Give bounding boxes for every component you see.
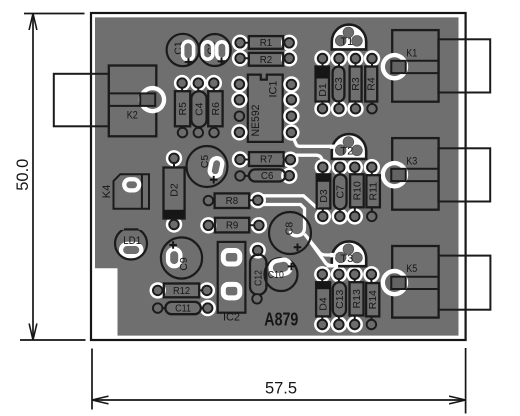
svg-text:C13: C13 [334,290,346,309]
svg-text:57.5: 57.5 [265,379,297,397]
resistor R11 [364,159,380,175]
svg-text:C12: C12 [252,270,264,286]
relay K1 [392,30,438,102]
diode D2 [166,150,182,166]
resistor R3 [347,50,363,66]
svg-text:R3: R3 [350,77,362,91]
svg-text:C6: C6 [261,170,274,182]
diode D1 [314,50,330,66]
wire trace patch T3 entry [330,253,335,257]
svg-text:T1: T1 [340,36,353,48]
svg-text:IC1: IC1 [267,81,279,98]
capacitor C4 [190,75,206,91]
capacitor C6 [281,168,297,184]
svg-text:K3: K3 [406,155,417,167]
board copper area [95,17,459,335]
svg-text:C4: C4 [193,102,205,116]
resistor R10 [347,159,363,175]
resistor R8 [250,192,266,208]
svg-text:R8: R8 [226,195,239,207]
svg-text:R7: R7 [260,154,273,166]
wire trace R8 to C8 pad hook [262,205,305,236]
capacitor C3 [331,50,347,66]
capacitor C2 [199,34,231,66]
transistor T3 [332,241,366,266]
wire trace C8 to T3 [305,234,335,255]
relay K3 [392,138,438,210]
svg-text:A879: A879 [264,308,298,329]
resistor R1 [232,35,248,51]
LED LD1 [121,244,141,256]
svg-text:R11: R11 [368,182,380,201]
IC2 [218,242,246,313]
svg-text:R13: R13 [351,289,363,308]
svg-text:R10: R10 [351,181,363,200]
resistor R12 [150,282,166,298]
connector K5 header [439,256,491,310]
transistor T2 [332,134,366,159]
component K4 [114,174,150,209]
svg-text:R9: R9 [226,220,239,232]
capacitor C7 [332,159,348,175]
svg-text:C9: C9 [178,257,190,271]
svg-text:C7: C7 [335,185,347,199]
diode D3 [315,159,331,175]
svg-text:K5: K5 [406,263,417,275]
resistor R14 [363,266,379,282]
capacitor C1 [167,34,199,66]
op-amp IC1 NE592 [248,75,283,142]
capacitor C13 [331,266,347,282]
svg-text:K4: K4 [101,185,113,198]
svg-text:C3: C3 [333,77,345,91]
dimension 57.5 bottom [92,348,466,414]
svg-text:IC2: IC2 [223,312,240,324]
resistor R6 [206,75,222,91]
resistor R7 [232,151,248,167]
svg-text:D3: D3 [318,189,330,203]
capacitor C8 [269,212,311,254]
svg-text:C8: C8 [284,222,296,236]
svg-text:D2: D2 [169,183,181,197]
svg-text:R12: R12 [173,285,190,297]
svg-text:50.0: 50.0 [14,159,32,191]
wire trace R7 to D3 pad [291,155,323,166]
transistor T1 [332,25,366,50]
svg-text:R14: R14 [367,290,379,309]
resistor R13 [347,266,363,282]
svg-text:R6: R6 [210,102,222,116]
wire trace R8 to D3 bottom pad [262,196,322,213]
svg-text:T2: T2 [340,146,353,158]
wire trace IC1 pin4 to T2 [291,134,334,147]
svg-text:T3: T3 [340,253,353,265]
capacitor C12 [250,242,266,258]
wire trace C10 to T3 [309,240,338,265]
svg-text:R1: R1 [260,37,273,49]
resistor R9 [200,217,216,233]
svg-text:LD1: LD1 [123,235,141,247]
resistor R2 [232,50,248,66]
svg-text:R2: R2 [260,54,273,66]
resistor R5 [174,75,190,91]
connector K1 header [438,39,490,92]
diode D4 [314,266,330,282]
capacitor C9 [161,237,202,278]
wire trace patch T2 entry [330,145,335,149]
capacitor C11 [200,300,216,316]
svg-text:R4: R4 [366,77,378,91]
connector K3 header [438,148,490,201]
capacitor C5 [187,146,228,187]
connector K2 header [54,74,109,127]
svg-text:D4: D4 [318,297,330,311]
board outline [91,13,466,340]
wire trace tab under T3 [327,264,339,268]
svg-text:K1: K1 [406,47,417,59]
svg-text:D1: D1 [317,83,329,97]
svg-text:K2: K2 [127,110,138,122]
svg-text:R5: R5 [177,102,189,116]
svg-text:C11: C11 [175,303,191,315]
svg-text:C10: C10 [268,269,284,281]
relay K2 [109,66,157,137]
dimension 50.0 left [20,14,86,341]
svg-text:NE592: NE592 [250,105,262,137]
resistor R4 [364,50,380,66]
capacitor C10 [265,258,298,291]
relay K5 [392,246,438,318]
IC1 pads [231,76,247,92]
